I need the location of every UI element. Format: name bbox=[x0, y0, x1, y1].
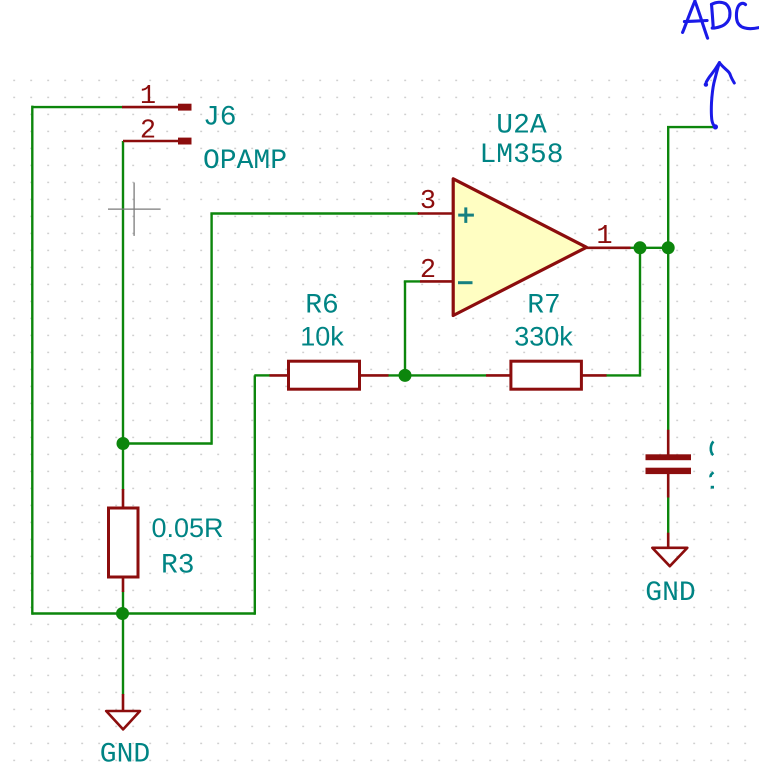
junction bbox=[117, 437, 130, 450]
svg-text:LM358: LM358 bbox=[479, 140, 563, 171]
capacitor label fragment 2 bbox=[711, 472, 714, 477]
junction bbox=[634, 241, 647, 254]
wire bbox=[606, 374, 640, 376]
wire bbox=[388, 374, 486, 376]
svg-text:GND: GND bbox=[100, 740, 150, 771]
resistor R3 bbox=[109, 489, 139, 592]
wire bbox=[210, 212, 419, 214]
svg-text:R6: R6 bbox=[305, 291, 339, 322]
wire bbox=[254, 375, 256, 614]
connector J6 pin 1 bbox=[122, 82, 192, 112]
junction bbox=[116, 607, 129, 620]
wire bbox=[639, 248, 641, 377]
wire bbox=[123, 442, 212, 444]
svg-text:0.05R: 0.05R bbox=[152, 513, 224, 543]
wire bbox=[667, 248, 669, 431]
wire bbox=[404, 281, 406, 375]
connector J6 pin 2 bbox=[123, 117, 192, 147]
svg-text:3: 3 bbox=[420, 187, 436, 217]
resistor R7 bbox=[486, 361, 607, 389]
svg-text:J6: J6 bbox=[203, 103, 237, 134]
wire bbox=[122, 592, 124, 614]
svg-text:GND: GND bbox=[645, 578, 695, 609]
cursor crosshair bbox=[108, 183, 161, 236]
wire bbox=[667, 127, 669, 249]
svg-text:10k: 10k bbox=[300, 322, 344, 352]
wire bbox=[404, 280, 420, 282]
svg-text:R3: R3 bbox=[161, 551, 195, 582]
svg-text:R7: R7 bbox=[527, 291, 561, 322]
wire bbox=[210, 214, 212, 445]
svg-text:1: 1 bbox=[140, 82, 156, 112]
svg-text:OPAMP: OPAMP bbox=[203, 146, 287, 177]
op-amp U2A body bbox=[453, 179, 586, 316]
op-amp U2A pin 3 bbox=[418, 187, 454, 217]
ground left bbox=[100, 694, 150, 771]
op-amp U2A pin 1 output bbox=[587, 222, 631, 252]
op-amp U2A minus mark bbox=[458, 281, 473, 284]
wire bbox=[254, 374, 270, 376]
svg-text:2: 2 bbox=[420, 256, 436, 286]
wire bbox=[122, 444, 124, 491]
wire bbox=[667, 126, 713, 128]
svg-text:U2A: U2A bbox=[496, 111, 547, 142]
wire bbox=[31, 106, 33, 615]
junction bbox=[662, 241, 675, 254]
annotation text ADC bbox=[683, 1, 759, 38]
ground right bbox=[645, 533, 695, 609]
wire bbox=[122, 614, 124, 695]
svg-text:1: 1 bbox=[596, 222, 612, 252]
capacitor label fragment 3 bbox=[711, 486, 714, 489]
wire bbox=[32, 612, 255, 614]
svg-text:2: 2 bbox=[140, 117, 156, 147]
wire bbox=[122, 141, 124, 444]
wire bbox=[667, 497, 669, 534]
annotation arrow to ADC bbox=[704, 63, 735, 130]
junction bbox=[399, 369, 412, 382]
wire bbox=[32, 106, 122, 108]
resistor R6 bbox=[270, 361, 389, 389]
op-amp U2A plus mark bbox=[458, 207, 474, 223]
wire bbox=[630, 247, 669, 249]
capacitor C bbox=[646, 430, 692, 498]
capacitor label fragment 1 bbox=[711, 442, 714, 456]
op-amp U2A pin 2 bbox=[420, 256, 454, 286]
svg-text:330k: 330k bbox=[514, 322, 573, 352]
